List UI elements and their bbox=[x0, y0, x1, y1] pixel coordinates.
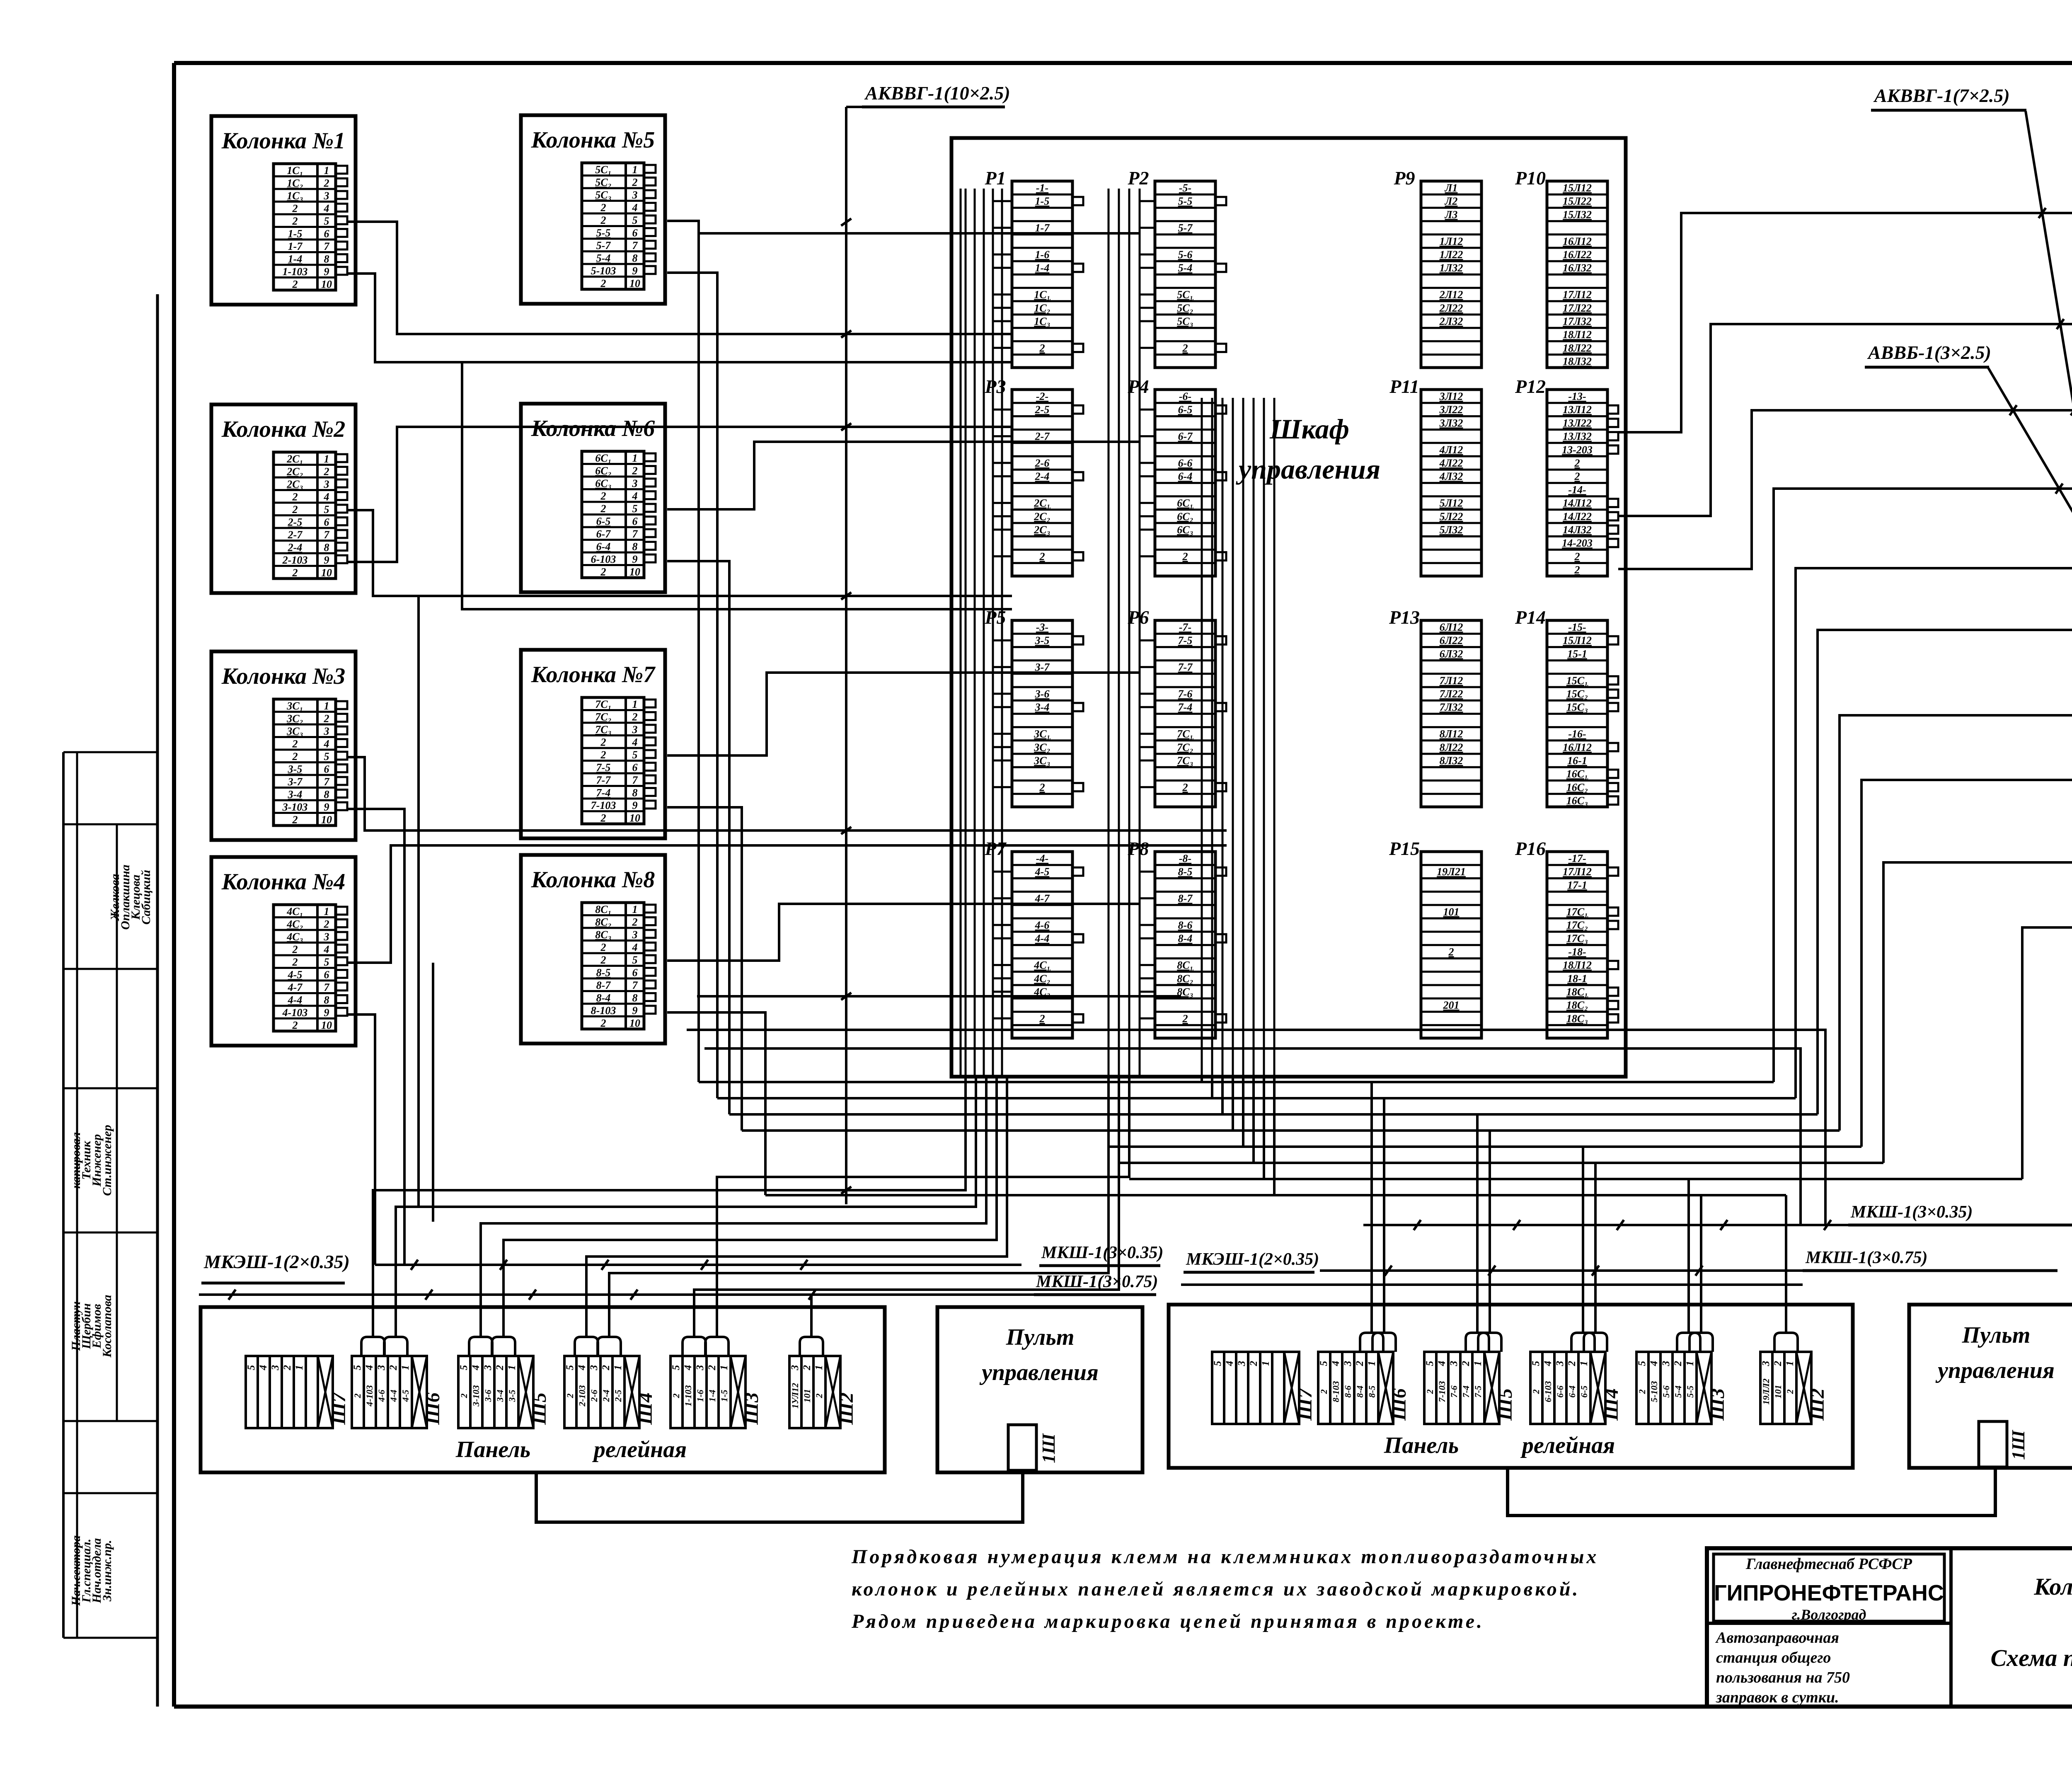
svg-text:2: 2 bbox=[1425, 1390, 1435, 1395]
svg-text:Порядковая нумерация клемм: Порядковая нумерация клемм на клеммниках… bbox=[851, 1546, 1599, 1568]
svg-text:13Л12: 13Л12 bbox=[1563, 404, 1592, 416]
svg-text:1: 1 bbox=[324, 906, 329, 918]
svg-text:4: 4 bbox=[1330, 1361, 1341, 1367]
svg-text:1С₁: 1С₁ bbox=[1034, 289, 1050, 301]
svg-text:1: 1 bbox=[719, 1365, 730, 1370]
svg-text:2: 2 bbox=[600, 214, 606, 226]
svg-text:9: 9 bbox=[324, 801, 329, 813]
svg-text:8-6: 8-6 bbox=[1178, 919, 1193, 931]
svg-text:8-4: 8-4 bbox=[1355, 1385, 1365, 1397]
svg-text:1-7: 1-7 bbox=[288, 240, 303, 252]
svg-text:4С₂: 4С₂ bbox=[286, 918, 303, 930]
svg-text:Р15: Р15 bbox=[1389, 838, 1420, 859]
svg-text:15-1: 15-1 bbox=[1567, 648, 1587, 660]
svg-text:1-5: 1-5 bbox=[288, 228, 303, 240]
svg-text:2: 2 bbox=[600, 1017, 606, 1029]
svg-text:2: 2 bbox=[632, 465, 638, 477]
svg-text:пользования на 750: пользования на 750 bbox=[1716, 1669, 1850, 1686]
svg-text:6С₂: 6С₂ bbox=[595, 465, 611, 477]
svg-text:2-7: 2-7 bbox=[288, 529, 303, 541]
svg-text:Автозаправочная: Автозаправочная bbox=[1715, 1629, 1839, 1646]
svg-text:5-4: 5-4 bbox=[596, 252, 611, 264]
svg-text:8: 8 bbox=[632, 992, 638, 1004]
svg-text:2-4: 2-4 bbox=[1035, 470, 1050, 482]
svg-text:5С₁: 5С₁ bbox=[1177, 289, 1193, 301]
svg-text:2: 2 bbox=[1460, 1361, 1472, 1367]
svg-text:Пульт: Пульт bbox=[1006, 1324, 1075, 1350]
svg-text:3-103: 3-103 bbox=[471, 1385, 481, 1407]
svg-text:1: 1 bbox=[324, 700, 329, 712]
svg-text:2: 2 bbox=[494, 1365, 506, 1371]
svg-text:3: 3 bbox=[632, 724, 638, 736]
svg-text:7-5: 7-5 bbox=[1178, 634, 1193, 646]
svg-text:4Л12: 4Л12 bbox=[1439, 444, 1463, 456]
svg-text:2: 2 bbox=[632, 177, 638, 189]
svg-text:Л3: Л3 bbox=[1445, 208, 1458, 220]
svg-text:Р2: Р2 bbox=[1127, 167, 1149, 189]
svg-text:3С₁: 3С₁ bbox=[1034, 728, 1050, 740]
svg-text:7: 7 bbox=[324, 240, 330, 252]
svg-text:5: 5 bbox=[1424, 1361, 1435, 1366]
svg-text:2: 2 bbox=[1039, 781, 1045, 793]
svg-text:4-6: 4-6 bbox=[1035, 919, 1050, 931]
svg-text:8С₃: 8С₃ bbox=[595, 929, 611, 941]
svg-text:1С₁: 1С₁ bbox=[287, 165, 303, 177]
svg-text:9: 9 bbox=[632, 553, 638, 565]
svg-text:201: 201 bbox=[1443, 999, 1460, 1011]
svg-text:3: 3 bbox=[632, 189, 638, 201]
svg-text:1Ш: 1Ш bbox=[2008, 1430, 2028, 1460]
svg-text:-17-: -17- bbox=[1568, 852, 1586, 864]
svg-text:-13-: -13- bbox=[1568, 390, 1586, 402]
svg-text:Главнефтеснаб РСФСР: Главнефтеснаб РСФСР bbox=[1745, 1555, 1912, 1573]
svg-text:1: 1 bbox=[632, 698, 638, 710]
svg-text:4: 4 bbox=[632, 202, 638, 214]
svg-text:4-5: 4-5 bbox=[288, 969, 303, 981]
svg-text:2: 2 bbox=[1319, 1390, 1329, 1395]
svg-text:5: 5 bbox=[324, 956, 329, 968]
svg-text:3-6: 3-6 bbox=[483, 1390, 493, 1402]
svg-text:2: 2 bbox=[1566, 1361, 1578, 1367]
svg-text:3: 3 bbox=[376, 1365, 387, 1371]
svg-text:1С₂: 1С₂ bbox=[1034, 302, 1050, 314]
svg-text:2: 2 bbox=[1785, 1390, 1795, 1395]
svg-text:релейная: релейная bbox=[592, 1437, 687, 1462]
svg-text:1-6: 1-6 bbox=[1035, 249, 1050, 261]
svg-text:5Л12: 5Л12 bbox=[1440, 497, 1463, 509]
svg-text:Колонка №3: Колонка №3 bbox=[221, 663, 346, 689]
svg-text:1: 1 bbox=[400, 1365, 411, 1370]
svg-text:6Л22: 6Л22 bbox=[1440, 634, 1463, 646]
svg-text:17-1: 17-1 bbox=[1567, 879, 1587, 891]
svg-text:Колонки АЗС.: Колонки АЗС. bbox=[2033, 1573, 2072, 1600]
svg-text:2: 2 bbox=[565, 1394, 575, 1399]
svg-text:9: 9 bbox=[324, 554, 329, 566]
svg-text:8Л22: 8Л22 bbox=[1440, 741, 1463, 753]
svg-text:5: 5 bbox=[352, 1365, 363, 1370]
svg-text:5: 5 bbox=[632, 214, 638, 226]
svg-text:4: 4 bbox=[1224, 1361, 1235, 1367]
svg-text:3С₂: 3С₂ bbox=[1034, 741, 1050, 753]
svg-text:8: 8 bbox=[632, 541, 638, 553]
svg-text:19ЛЛ2: 19ЛЛ2 bbox=[1761, 1378, 1771, 1404]
svg-text:18С₂: 18С₂ bbox=[1566, 999, 1588, 1011]
svg-text:Ш4: Ш4 bbox=[634, 1392, 656, 1425]
svg-text:2: 2 bbox=[707, 1365, 718, 1371]
svg-text:4: 4 bbox=[1648, 1361, 1660, 1367]
svg-text:-4-: -4- bbox=[1036, 852, 1048, 864]
svg-text:1: 1 bbox=[1784, 1361, 1796, 1366]
svg-text:16-1: 16-1 bbox=[1567, 755, 1587, 767]
svg-text:3: 3 bbox=[1760, 1361, 1772, 1367]
svg-text:Желкова: Желкова bbox=[108, 874, 122, 922]
svg-text:1: 1 bbox=[813, 1365, 825, 1370]
svg-text:6Л12: 6Л12 bbox=[1440, 621, 1463, 633]
svg-text:2: 2 bbox=[292, 491, 298, 503]
svg-text:3-4: 3-4 bbox=[288, 789, 303, 801]
svg-text:4-7: 4-7 bbox=[288, 981, 303, 993]
svg-text:2: 2 bbox=[600, 278, 606, 290]
svg-text:-2-: -2- bbox=[1036, 390, 1048, 402]
svg-text:2: 2 bbox=[324, 177, 329, 189]
svg-text:8-4: 8-4 bbox=[596, 992, 611, 1004]
svg-text:18Л22: 18Л22 bbox=[1563, 342, 1592, 354]
svg-text:4-5: 4-5 bbox=[400, 1390, 411, 1402]
svg-text:2: 2 bbox=[1448, 946, 1454, 958]
svg-text:1С₃: 1С₃ bbox=[1034, 315, 1050, 327]
svg-text:3С₃: 3С₃ bbox=[286, 725, 303, 737]
svg-text:7С₁: 7С₁ bbox=[1177, 728, 1193, 740]
svg-text:9: 9 bbox=[324, 266, 329, 278]
svg-text:10: 10 bbox=[321, 278, 332, 291]
svg-text:2-6: 2-6 bbox=[1035, 457, 1050, 469]
svg-text:2: 2 bbox=[671, 1394, 681, 1399]
svg-text:18С₁: 18С₁ bbox=[1566, 986, 1588, 998]
svg-text:7-5: 7-5 bbox=[1473, 1385, 1483, 1397]
svg-text:-1-: -1- bbox=[1036, 182, 1048, 194]
svg-text:3Л32: 3Л32 bbox=[1439, 417, 1463, 429]
svg-text:2: 2 bbox=[324, 918, 329, 930]
svg-text:2-103: 2-103 bbox=[577, 1385, 587, 1407]
svg-text:МКШ-1(3×0.35): МКШ-1(3×0.35) bbox=[1041, 1243, 1164, 1262]
svg-text:-3-: -3- bbox=[1036, 621, 1048, 633]
svg-text:3С₃: 3С₃ bbox=[1034, 755, 1050, 767]
svg-text:Ш7: Ш7 bbox=[328, 1392, 350, 1425]
svg-text:7-103: 7-103 bbox=[1437, 1381, 1447, 1402]
svg-text:10: 10 bbox=[321, 814, 332, 826]
svg-text:2С₃: 2С₃ bbox=[1034, 524, 1050, 536]
svg-text:4: 4 bbox=[324, 491, 329, 503]
svg-text:Пульт: Пульт bbox=[1962, 1322, 2031, 1348]
svg-text:1Л22: 1Л22 bbox=[1440, 249, 1463, 261]
svg-text:6: 6 bbox=[324, 763, 329, 775]
svg-text:2: 2 bbox=[1039, 1012, 1045, 1024]
svg-text:2Л32: 2Л32 bbox=[1439, 315, 1463, 327]
svg-text:1УЛ12: 1УЛ12 bbox=[790, 1383, 800, 1409]
svg-text:101: 101 bbox=[802, 1389, 812, 1403]
svg-text:15Л12: 15Л12 bbox=[1563, 182, 1592, 194]
svg-text:2: 2 bbox=[1248, 1361, 1259, 1367]
svg-text:-8-: -8- bbox=[1179, 852, 1191, 864]
svg-text:8: 8 bbox=[632, 787, 638, 799]
svg-text:АКВВГ-1(10×2.5): АКВВГ-1(10×2.5) bbox=[864, 82, 1010, 104]
svg-text:8С₂: 8С₂ bbox=[595, 916, 611, 928]
svg-text:2: 2 bbox=[632, 711, 638, 723]
svg-text:3: 3 bbox=[588, 1365, 600, 1371]
svg-text:8: 8 bbox=[324, 542, 329, 554]
svg-text:16Л32: 16Л32 bbox=[1563, 262, 1592, 274]
svg-text:управления: управления bbox=[979, 1360, 1099, 1385]
svg-text:8-5: 8-5 bbox=[1367, 1385, 1377, 1397]
svg-text:1: 1 bbox=[294, 1365, 305, 1370]
svg-text:Р7: Р7 bbox=[984, 838, 1007, 859]
svg-text:2: 2 bbox=[324, 713, 329, 725]
svg-text:1: 1 bbox=[324, 165, 329, 177]
svg-text:8С₁: 8С₁ bbox=[1177, 959, 1193, 971]
svg-text:г.Волгоград: г.Волгоград bbox=[1792, 1606, 1866, 1623]
svg-text:17Л22: 17Л22 bbox=[1563, 302, 1592, 314]
svg-text:1-4: 1-4 bbox=[1035, 262, 1050, 274]
svg-text:4: 4 bbox=[324, 203, 329, 215]
svg-text:Ш4: Ш4 bbox=[1600, 1388, 1622, 1421]
svg-text:5: 5 bbox=[632, 503, 638, 515]
svg-text:2: 2 bbox=[1531, 1390, 1541, 1395]
svg-text:4: 4 bbox=[632, 490, 638, 502]
svg-text:Рядом приведена маркировка: Рядом приведена маркировка цепей принята… bbox=[851, 1610, 1484, 1632]
svg-text:6-4: 6-4 bbox=[1178, 470, 1193, 482]
svg-text:6: 6 bbox=[632, 516, 638, 528]
svg-text:2: 2 bbox=[1039, 342, 1045, 354]
svg-text:Р12: Р12 bbox=[1515, 376, 1546, 397]
svg-text:Ш2: Ш2 bbox=[1806, 1388, 1828, 1421]
svg-text:5: 5 bbox=[324, 504, 329, 516]
svg-text:2: 2 bbox=[292, 203, 298, 215]
svg-text:6-6: 6-6 bbox=[1555, 1385, 1565, 1397]
svg-text:1: 1 bbox=[632, 164, 638, 176]
svg-text:10: 10 bbox=[321, 1019, 332, 1031]
svg-text:-14-: -14- bbox=[1568, 484, 1586, 496]
svg-text:18Л32: 18Л32 bbox=[1563, 356, 1592, 368]
svg-text:6: 6 bbox=[324, 228, 329, 240]
svg-text:5Л22: 5Л22 bbox=[1440, 511, 1463, 523]
svg-text:2: 2 bbox=[600, 490, 606, 502]
svg-text:6С₁: 6С₁ bbox=[1177, 497, 1193, 509]
svg-text:МКЭШ-1(2×0.35): МКЭШ-1(2×0.35) bbox=[1186, 1250, 1319, 1269]
svg-text:7Л32: 7Л32 bbox=[1440, 701, 1463, 713]
svg-text:3-103: 3-103 bbox=[282, 801, 308, 813]
svg-text:8Л12: 8Л12 bbox=[1440, 728, 1463, 740]
svg-text:5С₃: 5С₃ bbox=[1177, 315, 1193, 327]
svg-text:5-5: 5-5 bbox=[1685, 1385, 1695, 1397]
svg-text:19Л21: 19Л21 bbox=[1437, 866, 1466, 878]
svg-text:17С₁: 17С₁ bbox=[1566, 906, 1588, 918]
svg-text:9: 9 bbox=[632, 799, 638, 811]
svg-text:Р10: Р10 bbox=[1515, 167, 1546, 189]
svg-text:4-4: 4-4 bbox=[1035, 932, 1050, 944]
svg-text:1С₂: 1С₂ bbox=[287, 177, 303, 189]
svg-text:3С₁: 3С₁ bbox=[286, 700, 303, 712]
svg-text:17Л12: 17Л12 bbox=[1563, 289, 1592, 301]
svg-text:18Л12: 18Л12 bbox=[1563, 959, 1592, 971]
svg-text:3: 3 bbox=[632, 929, 638, 941]
svg-text:3-5: 3-5 bbox=[507, 1390, 517, 1402]
svg-text:4: 4 bbox=[683, 1365, 694, 1371]
svg-text:7С₂: 7С₂ bbox=[1177, 741, 1193, 753]
svg-text:8С₂: 8С₂ bbox=[1177, 973, 1193, 985]
svg-text:1С₃: 1С₃ bbox=[287, 190, 303, 202]
svg-text:4-4: 4-4 bbox=[388, 1390, 399, 1402]
svg-text:3: 3 bbox=[632, 477, 638, 489]
svg-text:2-5: 2-5 bbox=[1035, 404, 1050, 416]
svg-text:2: 2 bbox=[1039, 550, 1045, 562]
svg-text:4: 4 bbox=[632, 942, 638, 954]
svg-text:Ш5: Ш5 bbox=[528, 1392, 550, 1425]
svg-text:2: 2 bbox=[324, 466, 329, 478]
svg-text:5: 5 bbox=[324, 751, 329, 763]
svg-text:5: 5 bbox=[458, 1365, 470, 1370]
svg-text:6-4: 6-4 bbox=[1567, 1385, 1577, 1397]
svg-text:7С₂: 7С₂ bbox=[595, 711, 611, 723]
svg-text:5: 5 bbox=[564, 1365, 576, 1370]
svg-text:1-5: 1-5 bbox=[719, 1390, 729, 1402]
svg-text:Колонка №8: Колонка №8 bbox=[531, 867, 655, 893]
svg-text:Р11: Р11 bbox=[1389, 376, 1419, 397]
svg-text:8С₁: 8С₁ bbox=[595, 903, 611, 915]
svg-text:6: 6 bbox=[632, 967, 638, 979]
svg-text:2: 2 bbox=[600, 503, 606, 515]
svg-text:10: 10 bbox=[629, 812, 640, 824]
svg-text:7-6: 7-6 bbox=[1178, 688, 1193, 700]
svg-text:Колонка №5: Колонка №5 bbox=[531, 127, 655, 153]
svg-text:5С₃: 5С₃ bbox=[595, 189, 611, 201]
svg-text:5С₂: 5С₂ bbox=[595, 177, 611, 189]
svg-text:18С₃: 18С₃ bbox=[1566, 1012, 1588, 1024]
svg-text:3-4: 3-4 bbox=[495, 1390, 505, 1402]
svg-text:3: 3 bbox=[324, 931, 329, 943]
svg-text:16С₁: 16С₁ bbox=[1566, 768, 1588, 780]
svg-text:17Л32: 17Л32 bbox=[1563, 315, 1592, 327]
svg-text:14-203: 14-203 bbox=[1562, 537, 1593, 549]
svg-text:3: 3 bbox=[695, 1365, 706, 1371]
svg-text:5-103: 5-103 bbox=[1649, 1381, 1659, 1402]
svg-text:4С₃: 4С₃ bbox=[286, 931, 303, 943]
svg-text:6-4: 6-4 bbox=[596, 541, 611, 553]
svg-text:17Л12: 17Л12 bbox=[1563, 866, 1592, 878]
svg-text:2: 2 bbox=[282, 1365, 293, 1371]
svg-text:6-5: 6-5 bbox=[1579, 1385, 1589, 1397]
svg-text:1-4: 1-4 bbox=[288, 253, 303, 265]
svg-text:7: 7 bbox=[632, 979, 638, 991]
svg-text:колонок и релейных панелей: колонок и релейных панелей является их з… bbox=[852, 1578, 1580, 1600]
svg-text:Л2: Л2 bbox=[1445, 195, 1458, 207]
svg-text:4: 4 bbox=[258, 1365, 269, 1371]
svg-text:10: 10 bbox=[629, 1017, 640, 1029]
svg-text:2: 2 bbox=[600, 954, 606, 966]
svg-text:2-5: 2-5 bbox=[288, 516, 303, 528]
svg-text:4-6: 4-6 bbox=[376, 1390, 387, 1402]
svg-text:3: 3 bbox=[324, 190, 329, 202]
svg-text:7: 7 bbox=[324, 776, 330, 788]
svg-text:-5-: -5- bbox=[1179, 182, 1191, 194]
svg-text:Колонка №4: Колонка №4 bbox=[221, 869, 346, 895]
svg-text:Р6: Р6 bbox=[1127, 607, 1149, 628]
svg-text:7С₃: 7С₃ bbox=[1177, 755, 1193, 767]
svg-text:7: 7 bbox=[632, 240, 638, 252]
svg-text:15С₂: 15С₂ bbox=[1566, 688, 1588, 700]
svg-text:Ш6: Ш6 bbox=[422, 1392, 444, 1425]
svg-text:9: 9 bbox=[632, 1005, 638, 1017]
svg-text:2: 2 bbox=[292, 1019, 298, 1031]
svg-text:17С₂: 17С₂ bbox=[1566, 919, 1588, 931]
svg-text:7-7: 7-7 bbox=[596, 774, 611, 786]
svg-text:6-5: 6-5 bbox=[596, 516, 611, 528]
svg-text:13Л22: 13Л22 bbox=[1563, 417, 1592, 429]
svg-text:2: 2 bbox=[292, 956, 298, 968]
svg-text:4: 4 bbox=[364, 1365, 375, 1371]
svg-text:заправок в сутки.: заправок в сутки. bbox=[1716, 1689, 1839, 1706]
svg-text:1-4: 1-4 bbox=[707, 1390, 717, 1402]
svg-text:8: 8 bbox=[324, 789, 329, 801]
svg-text:2: 2 bbox=[1574, 457, 1580, 469]
svg-text:1-5: 1-5 bbox=[1035, 195, 1050, 207]
svg-text:МКШ-1(3×0.35): МКШ-1(3×0.35) bbox=[1850, 1203, 1973, 1222]
svg-text:Р16: Р16 bbox=[1515, 838, 1546, 859]
svg-text:8-7: 8-7 bbox=[596, 979, 611, 991]
svg-text:2С₁: 2С₁ bbox=[1034, 497, 1050, 509]
svg-text:17С₃: 17С₃ bbox=[1566, 932, 1588, 944]
svg-text:2: 2 bbox=[388, 1365, 399, 1371]
svg-text:7: 7 bbox=[632, 774, 638, 786]
svg-text:Ш6: Ш6 bbox=[1388, 1388, 1410, 1421]
svg-text:2: 2 bbox=[1182, 342, 1188, 354]
svg-text:4С₂: 4С₂ bbox=[1034, 973, 1050, 985]
svg-text:2-4: 2-4 bbox=[288, 542, 303, 554]
svg-text:7-103: 7-103 bbox=[591, 799, 616, 811]
svg-text:7Л12: 7Л12 bbox=[1440, 675, 1463, 687]
svg-text:2: 2 bbox=[292, 738, 298, 750]
svg-text:101: 101 bbox=[1773, 1385, 1783, 1399]
svg-text:5-5: 5-5 bbox=[596, 227, 611, 239]
svg-text:14Л32: 14Л32 bbox=[1563, 524, 1592, 536]
svg-text:4-4: 4-4 bbox=[288, 994, 303, 1006]
svg-text:Р4: Р4 bbox=[1127, 376, 1149, 397]
svg-text:Нач.сектора: Нач.сектора bbox=[69, 1535, 83, 1606]
svg-text:4: 4 bbox=[470, 1365, 482, 1371]
svg-text:7: 7 bbox=[324, 981, 330, 993]
svg-text:3: 3 bbox=[324, 478, 329, 490]
svg-text:капировал: капировал bbox=[69, 1132, 83, 1189]
svg-text:7С₁: 7С₁ bbox=[595, 698, 611, 710]
svg-text:15С₃: 15С₃ bbox=[1566, 701, 1588, 713]
svg-text:2: 2 bbox=[600, 1365, 612, 1371]
svg-text:2: 2 bbox=[352, 1394, 363, 1399]
svg-text:8Л32: 8Л32 bbox=[1440, 755, 1463, 767]
svg-text:5: 5 bbox=[1636, 1361, 1648, 1366]
svg-text:1Л32: 1Л32 bbox=[1440, 262, 1463, 274]
svg-text:1: 1 bbox=[632, 452, 638, 464]
svg-text:5: 5 bbox=[1212, 1361, 1223, 1366]
svg-text:Колонка №1: Колонка №1 bbox=[221, 128, 346, 154]
svg-text:101: 101 bbox=[1443, 906, 1460, 918]
svg-text:управления: управления bbox=[1236, 453, 1380, 485]
svg-text:2: 2 bbox=[1574, 470, 1580, 482]
svg-text:4: 4 bbox=[1436, 1361, 1447, 1367]
svg-text:10: 10 bbox=[629, 278, 640, 290]
svg-text:4С₁: 4С₁ bbox=[286, 906, 303, 918]
svg-text:1: 1 bbox=[1472, 1361, 1484, 1366]
svg-text:9: 9 bbox=[632, 265, 638, 277]
svg-text:2С₁: 2С₁ bbox=[286, 453, 303, 465]
